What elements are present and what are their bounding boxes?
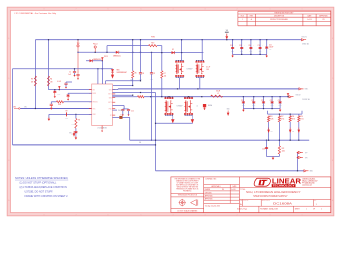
svg-text:TP7: TP7	[305, 152, 308, 154]
svg-text:C23: C23	[270, 100, 273, 102]
svg-text:WHOLE WITHOUT THE WRITTEN: WHOLE WITHOUT THE WRITTEN	[177, 186, 198, 188]
svg-text:R8: R8	[78, 120, 80, 122]
svg-text:MBRM120LT3: MBRM120LT3	[93, 59, 102, 61]
svg-text:VOUT1: VOUT1	[302, 37, 307, 39]
svg-text:104: 104	[139, 142, 142, 144]
svg-text:C24: C24	[278, 100, 281, 102]
svg-text:6: 6	[108, 214, 109, 216]
svg-text:22uF: 22uF	[259, 51, 262, 53]
svg-text:TECHNOLOGY: TECHNOLOGY	[273, 184, 295, 188]
svg-text:6-4-10: 6-4-10	[307, 19, 312, 21]
svg-text:R20: R20	[300, 116, 303, 118]
svg-text:D2: D2	[172, 49, 174, 51]
svg-text:7: 7	[76, 9, 77, 11]
svg-text:R7: R7	[164, 73, 166, 75]
svg-text:47.5k: 47.5k	[281, 118, 285, 120]
svg-text:100uF: 100uF	[278, 105, 282, 107]
svg-text:C17: C17	[258, 45, 261, 47]
svg-text:100k: 100k	[282, 151, 285, 153]
svg-text:www.linear.com: www.linear.com	[302, 185, 313, 187]
svg-text:90.9k: 90.9k	[270, 118, 274, 120]
svg-text:5: 5	[141, 214, 142, 216]
svg-text:4.7uF: 4.7uF	[57, 81, 61, 83]
svg-text:0.1uF: 0.1uF	[57, 94, 60, 96]
svg-text:DWG NO.: DWG NO.	[243, 200, 249, 202]
svg-text:4.99k: 4.99k	[71, 124, 74, 126]
svg-text:22uF: 22uF	[250, 51, 253, 53]
svg-text:L2: L2	[217, 93, 219, 95]
svg-text:NOTES: UNLESS OTHERWISE SPECIF: NOTES: UNLESS OTHERWISE SPECIFIED,	[15, 176, 68, 180]
svg-text:16V: 16V	[206, 69, 209, 71]
svg-text:SW2: SW2	[109, 97, 112, 99]
svg-text:R4: R4	[50, 79, 52, 81]
svg-text:(2) LTC3633-1EGN,REPLACE C3633: (2) LTC3633-1EGN,REPLACE C3633TR IN	[20, 186, 67, 189]
svg-text:1: 1	[302, 214, 303, 216]
svg-text:REV: REV	[314, 200, 317, 202]
svg-text:R6: R6	[135, 73, 137, 75]
svg-text:PVIN: PVIN	[151, 36, 155, 38]
svg-text:C12: C12	[131, 111, 134, 113]
svg-text:BST2: BST2	[108, 102, 112, 104]
svg-text:150uF: 150uF	[269, 47, 273, 49]
svg-text:100uF: 100uF	[252, 105, 256, 107]
svg-text:LTC CONFIDENTIAL - For Custome: LTC CONFIDENTIAL - For Customer Use Only	[15, 12, 57, 15]
svg-text:R19: R19	[151, 42, 154, 44]
svg-text:8: 8	[44, 9, 45, 11]
svg-text:C16: C16	[248, 45, 251, 47]
svg-text:VIN: VIN	[226, 30, 228, 32]
svg-text:5: 5	[141, 9, 142, 11]
svg-text:7: 7	[76, 214, 77, 216]
svg-text:FRAME WITH C3633TR3 ON SHEET 2: FRAME WITH C3633TR3 ON SHEET 2.	[25, 195, 69, 198]
svg-text:3: 3	[205, 9, 206, 11]
svg-text:100uF: 100uF	[262, 105, 266, 107]
svg-text:1: 1	[302, 9, 303, 11]
svg-text:TRKSS1: TRKSS1	[93, 102, 98, 104]
svg-text:GND: GND	[227, 109, 230, 111]
svg-text:R3: R3	[31, 79, 33, 81]
svg-text:REV: REV	[250, 15, 253, 17]
svg-text:OF: OF	[313, 209, 315, 211]
svg-text:100uF: 100uF	[242, 105, 246, 107]
svg-text:3: 3	[205, 214, 206, 216]
svg-text:PROHIBITED.: PROHIBITED.	[183, 190, 192, 192]
svg-text:0.1uF: 0.1uF	[206, 66, 210, 68]
svg-text:100uF: 100uF	[270, 105, 274, 107]
svg-text:1: 1	[270, 9, 271, 11]
svg-text:CHECKED: CHECKED	[205, 192, 212, 194]
svg-text:C20: C20	[241, 100, 244, 102]
svg-text:VFB1: VFB1	[93, 114, 97, 116]
svg-text:ITH1: ITH1	[93, 109, 96, 111]
svg-text:REVISION HISTORY: REVISION HISTORY	[275, 13, 295, 15]
svg-text:2: 2	[237, 214, 238, 216]
svg-text:90.9k: 90.9k	[292, 118, 296, 120]
svg-text:RED: RED	[117, 70, 120, 72]
svg-text:R17: R17	[281, 116, 284, 118]
svg-text:VIN: VIN	[93, 89, 95, 91]
svg-text:PGood: PGood	[93, 44, 98, 46]
svg-text:U3733E, DO NOT STUFF.: U3733E, DO NOT STUFF.	[25, 190, 54, 193]
svg-text:FB2: FB2	[292, 131, 295, 133]
svg-text:1: 1	[270, 214, 271, 216]
svg-text:SHEET: SHEET	[295, 209, 300, 211]
svg-text:DESCRIPTION: DESCRIPTION	[274, 15, 284, 17]
svg-text:47.5k: 47.5k	[300, 118, 304, 120]
svg-text:10k: 10k	[164, 76, 167, 78]
svg-text:TP4: TP4	[77, 43, 80, 45]
svg-text:RS: RS	[222, 189, 224, 191]
svg-text:FB1: FB1	[270, 131, 273, 133]
svg-text:RUN1: RUN1	[93, 93, 97, 95]
svg-text:DC1608A: DC1608A	[273, 201, 292, 205]
svg-text:100k: 100k	[58, 104, 61, 106]
svg-text:4: 4	[173, 214, 174, 216]
svg-text:C22: C22	[261, 100, 264, 102]
svg-text:1.00M: 1.00M	[65, 118, 68, 120]
svg-text:VOUT2: VOUT2	[296, 95, 301, 97]
svg-text:R16: R16	[270, 116, 273, 118]
svg-text:PGD: PGD	[109, 109, 112, 111]
svg-text:VIN: VIN	[24, 107, 26, 109]
svg-text:R9: R9	[66, 110, 68, 112]
svg-text:22uF: 22uF	[231, 51, 234, 53]
svg-text:R18: R18	[292, 116, 295, 118]
svg-text:DEMO CIRCUIT: DEMO CIRCUIT	[262, 200, 270, 202]
svg-text:4: 4	[173, 9, 174, 11]
svg-text:VIN 1: VIN 1	[305, 89, 309, 91]
svg-text:Si7936DP: Si7936DP	[187, 68, 193, 70]
svg-text:R22: R22	[282, 148, 285, 150]
svg-text:C1: C1	[69, 72, 71, 74]
svg-text:C11: C11	[269, 44, 272, 46]
svg-text:SUPERBRIGHT: SUPERBRIGHT	[117, 72, 128, 74]
svg-text:C15: C15	[239, 45, 242, 47]
svg-text:6.3V: 6.3V	[269, 49, 272, 51]
svg-text:3.3uH: 3.3uH	[216, 91, 220, 93]
svg-text:Si7936DP: Si7936DP	[177, 105, 183, 107]
svg-text:22uF: 22uF	[240, 51, 243, 53]
svg-text:x2: x2	[197, 105, 199, 107]
svg-text:2: 2	[237, 9, 238, 11]
svg-text:(1) DO NOT STUFF (OPTIONAL).: (1) DO NOT STUFF (OPTIONAL).	[20, 181, 57, 184]
svg-text:TP8: TP8	[305, 157, 308, 159]
svg-text:6-4-10: 6-4-10	[231, 189, 235, 191]
svg-text:BST1: BST1	[108, 94, 112, 96]
svg-text:SW1: SW1	[109, 89, 112, 91]
svg-text:SIZE: SIZE	[240, 200, 243, 202]
svg-text:PVCC: PVCC	[104, 56, 108, 58]
svg-text:C28: C28	[262, 149, 265, 151]
svg-text:PGOOD2: PGOOD2	[118, 110, 124, 112]
svg-text:RT: RT	[120, 114, 122, 116]
svg-text:C9: C9	[153, 73, 155, 75]
svg-text:STEP-DOWN POWER SUPPLY: STEP-DOWN POWER SUPPLY	[253, 194, 287, 198]
svg-text:MBR0520L: MBR0520L	[113, 55, 121, 57]
svg-text:PH: (408) 432-1900: PH: (408) 432-1900	[302, 183, 314, 185]
svg-text:6: 6	[108, 9, 109, 11]
svg-text:C8: C8	[142, 73, 144, 75]
svg-text:RT: RT	[110, 115, 112, 117]
svg-text:Tuesday, July 06, 2010: Tuesday, July 06, 2010	[205, 206, 221, 208]
svg-text:1uF: 1uF	[68, 74, 71, 76]
svg-text:C14: C14	[230, 45, 233, 47]
svg-text:8: 8	[44, 214, 45, 216]
svg-text:C21: C21	[251, 100, 254, 102]
svg-text:VIN: VIN	[69, 132, 71, 134]
